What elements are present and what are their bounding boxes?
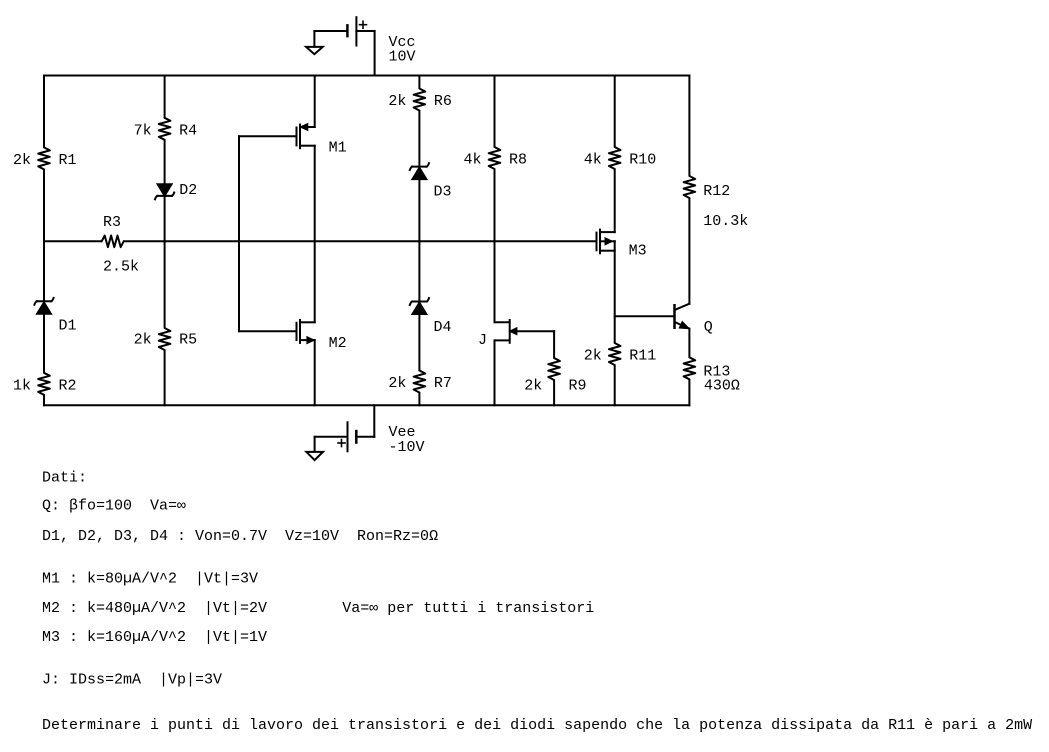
svg-text:2k: 2k [388, 375, 406, 392]
wire M1 source to Vcc rail [314, 76, 316, 128]
diode D3 (zener) [412, 166, 426, 168]
svg-text:4k: 4k [584, 152, 602, 169]
svg-text:2k: 2k [524, 377, 542, 394]
wire M1/M2 gate column [238, 136, 240, 331]
wire M1 drain to M2 drain [314, 146, 316, 323]
svg-text:1k: 1k [13, 377, 31, 394]
svg-text:2k: 2k [584, 348, 602, 365]
svg-text:R2: R2 [59, 377, 77, 394]
resistor R1 [38, 147, 50, 169]
wire battery to ground [315, 436, 348, 438]
svg-text:10.3k: 10.3k [703, 213, 748, 230]
wire R8 column to J drain [494, 76, 496, 147]
wire bottom rail to Vee battery [373, 405, 375, 437]
svg-text:4k: 4k [464, 152, 482, 169]
wire R12 column [688, 76, 690, 176]
svg-text:J: IDss=2mA |Vp|=3V: J: IDss=2mA |Vp|=3V [42, 671, 222, 688]
diode D1 (zener) [37, 300, 51, 302]
svg-text:M3 : k=160µA/V^2 |Vt|=1V: M3 : k=160µA/V^2 |Vt|=1V [42, 629, 267, 646]
resistor R10 [609, 147, 621, 169]
svg-text:M1 : k=80µA/V^2 |Vt|=3V: M1 : k=80µA/V^2 |Vt|=3V [42, 571, 258, 588]
wire R11 to Vee rail [614, 366, 616, 406]
wire R6/D3/D4/R7 column [418, 76, 420, 88]
resistor R5 [159, 328, 171, 350]
svg-text:M2: M2 [329, 335, 347, 352]
svg-text:Q: βfo=100 Va=∞: Q: βfo=100 Va=∞ [42, 498, 186, 515]
wire Q emitter to R13 [688, 329, 690, 357]
svg-text:D1: D1 [59, 318, 77, 335]
transistor M1 (PMOS) [296, 127, 298, 147]
wire M2 source to Vee rail [314, 340, 316, 405]
battery Vcc [346, 24, 349, 37]
svg-text:430Ω: 430Ω [704, 378, 740, 395]
svg-text:D1, D2, D3, D4 : Von=0.7V Vz=: D1, D2, D3, D4 : Von=0.7V Vz=10V Ron=Rz=… [42, 528, 438, 545]
wire J source down to Vee rail [494, 340, 496, 405]
svg-text:R8: R8 [509, 152, 527, 169]
ground (bottom, at Vee battery) [306, 452, 323, 460]
svg-text:R10: R10 [629, 152, 656, 169]
svg-text:J: J [478, 332, 487, 349]
wire top supply rail [44, 75, 689, 77]
diode D4 (zener) [412, 301, 426, 303]
wire battery to top rail [356, 30, 374, 32]
svg-text:M2 : k=480µA/V^2 |Vt|=2V: M2 : k=480µA/V^2 |Vt|=2V [42, 600, 267, 617]
svg-text:R11: R11 [629, 348, 656, 365]
ground (top, at Vcc battery) [306, 47, 323, 54]
svg-text:R6: R6 [434, 93, 452, 110]
svg-text:R3: R3 [103, 214, 121, 231]
wire middle horizontal node (R3 row to M3 gate) [44, 240, 101, 242]
svg-text:2k: 2k [388, 93, 406, 110]
resistor R3 [102, 236, 124, 248]
svg-text:R12: R12 [703, 183, 730, 200]
resistor R7 [414, 371, 426, 393]
wire Q base lead [615, 315, 674, 317]
wire R4/D2/R5 column [164, 76, 166, 118]
resistor R9 [548, 358, 560, 380]
svg-text:M1: M1 [329, 139, 347, 156]
battery Vee [355, 430, 358, 444]
svg-text:R1: R1 [59, 152, 77, 169]
resistor R4 [159, 118, 171, 140]
resistor R2 [38, 373, 50, 395]
svg-text:R5: R5 [179, 332, 197, 349]
resistor R12 [684, 176, 696, 198]
svg-text:7k: 7k [134, 122, 152, 139]
wire left rail (R1/D1/R2 column) [43, 76, 45, 147]
svg-text:Determinare i punti di lavoro: Determinare i punti di lavoro dei transi… [42, 717, 1032, 734]
svg-text:-10V: -10V [389, 439, 425, 456]
wire bottom supply rail [44, 404, 689, 406]
svg-text:R4: R4 [179, 122, 197, 139]
transistor J (JFET) [509, 319, 511, 344]
svg-text:2k: 2k [134, 332, 152, 349]
svg-text:D4: D4 [434, 319, 452, 336]
wire R10 column [614, 76, 616, 147]
svg-text:R7: R7 [434, 375, 452, 392]
svg-text:Q: Q [704, 319, 713, 336]
resistor R11 [609, 343, 621, 365]
wire M3 source / Q base / R11 node [614, 241, 616, 342]
svg-text:2.5k: 2.5k [103, 259, 139, 276]
resistor R8 [489, 147, 501, 169]
transistor M2 (NMOS) [296, 322, 298, 341]
wire J gate to R9 [553, 331, 555, 357]
svg-text:M3: M3 [629, 242, 647, 259]
svg-text:Va=∞ per tutti i transistori: Va=∞ per tutti i transistori [342, 600, 594, 617]
resistor R13 [684, 357, 696, 379]
svg-text:10V: 10V [389, 49, 416, 66]
svg-text:2k: 2k [13, 152, 31, 169]
svg-text:Dati:: Dati: [42, 469, 87, 486]
svg-text:D3: D3 [434, 184, 452, 201]
svg-text:D2: D2 [179, 182, 197, 199]
diode D2 (zener) [157, 195, 171, 197]
resistor R6 [414, 89, 426, 111]
svg-text:R9: R9 [569, 377, 587, 394]
transistor Q (NPN BJT) [673, 304, 676, 329]
wire ground to battery [313, 31, 315, 47]
transistor M3 (NMOS) [596, 232, 598, 252]
